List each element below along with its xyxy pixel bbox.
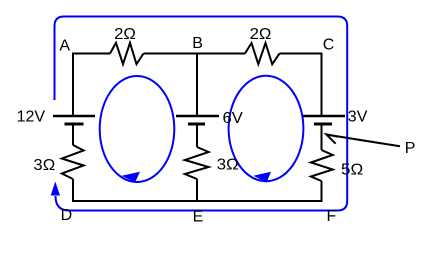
wire R2 to node C: [280, 53, 322, 55]
wire R1 to node B to R2: [144, 53, 246, 55]
mesh current loop 2 (ellipse): [229, 76, 304, 181]
svg-text:6V: 6V: [223, 110, 244, 127]
battery 3V short plate: [314, 123, 332, 126]
wire node A down to 12V battery: [72, 53, 74, 117]
mesh current loop 1 (ellipse): [100, 76, 175, 182]
wire node B down to 6V battery: [196, 54, 198, 117]
wire 12V battery to resistor 3ohm: [72, 124, 74, 145]
wire resistor to node E: [196, 179, 198, 202]
wire resistor to node D: [72, 179, 74, 202]
svg-text:E: E: [193, 209, 204, 226]
battery 6V long plate: [176, 115, 219, 118]
arrow P pointing at 3V battery: [328, 135, 401, 147]
svg-text:5Ω: 5Ω: [341, 161, 363, 178]
wire resistor to node F: [321, 181, 323, 202]
wire bottom D-E-F: [72, 200, 323, 202]
svg-text:12V: 12V: [17, 109, 46, 126]
svg-text:B: B: [192, 35, 203, 52]
mesh loop 1 arrowhead: [122, 172, 141, 183]
svg-text:F: F: [327, 208, 337, 225]
wire 3V battery to resistor 5ohm: [321, 124, 323, 150]
svg-text:3V: 3V: [348, 109, 368, 126]
svg-text:D: D: [61, 207, 73, 224]
wire top A-B segment with resistor leads: [73, 53, 110, 55]
battery 6V short plate: [188, 123, 205, 126]
svg-text:C: C: [323, 36, 335, 53]
wire node C down to 3V battery: [321, 53, 323, 117]
svg-text:P: P: [405, 140, 416, 157]
battery 12V long plate: [53, 115, 95, 118]
resistor 3ohm middle: [185, 147, 209, 179]
blue annotation loop around circuit: [55, 17, 348, 211]
battery 12V short plate: [65, 123, 84, 126]
svg-text:2Ω: 2Ω: [250, 26, 272, 43]
svg-text:2Ω: 2Ω: [114, 26, 136, 43]
svg-text:3Ω: 3Ω: [217, 157, 239, 174]
blue loop arrowhead near D: [51, 182, 60, 196]
wire 6V battery to resistor 3ohm mid: [196, 124, 198, 147]
resistor R2 2ohm (B-C): [245, 43, 280, 64]
arrowhead of P arrow: [326, 134, 338, 143]
svg-text:A: A: [59, 38, 70, 55]
resistor 3ohm left: [62, 145, 84, 179]
svg-text:3Ω: 3Ω: [33, 157, 55, 174]
mesh loop 2 arrowhead: [254, 172, 272, 183]
resistor R1 2ohm (A-B): [110, 43, 144, 64]
battery 3V long plate: [303, 115, 345, 118]
resistor 5ohm: [311, 150, 333, 181]
